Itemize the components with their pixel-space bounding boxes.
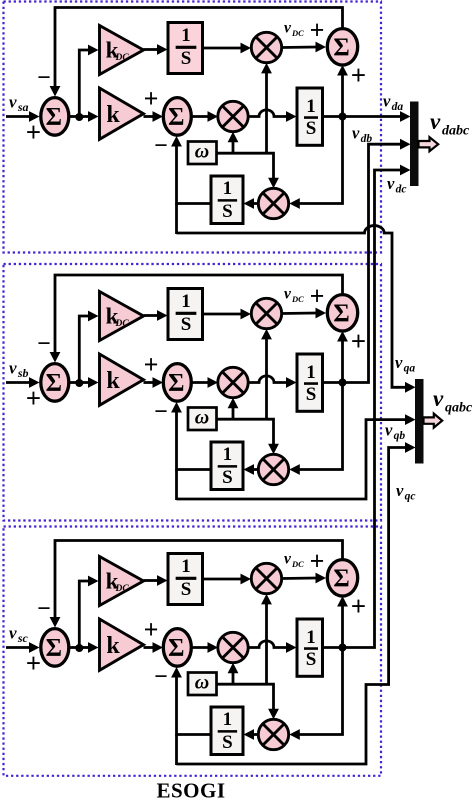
svg-text:S: S (222, 201, 233, 222)
wire M2a to integrator with hop (248, 110, 296, 122)
label v_qb (385, 421, 405, 443)
wire kDCb to integrator (144, 310, 168, 321)
svg-text:−: − (37, 65, 51, 91)
svg-text:Σ: Σ (333, 34, 349, 61)
wire S1a to node (70, 115, 80, 118)
wire node to gain kc (79, 642, 98, 653)
integrator 1/S quadrature path c (211, 707, 243, 755)
summing junction S3a (327, 29, 357, 65)
svg-text:v: v (433, 386, 444, 411)
wire integrator to multiplier M1b (203, 309, 252, 320)
svg-text:+: + (144, 350, 159, 379)
plus sign at S2b (144, 350, 159, 379)
svg-text:v: v (352, 124, 360, 143)
svg-text:k: k (106, 368, 120, 394)
wire M3b to integrator q (244, 464, 259, 475)
plus sign at S1a (26, 117, 41, 147)
wire M2b to integrator with hop (248, 376, 296, 388)
svg-text:S: S (222, 467, 233, 488)
svg-text:+: + (26, 383, 41, 413)
dotted frame phase c (4, 527, 382, 776)
svg-text:db: db (361, 133, 373, 145)
wire omegac to M1 M2 M3 (217, 594, 279, 719)
wire S1b to node (70, 381, 80, 384)
wire kDCc to integrator (144, 575, 168, 586)
wire v_da output (323, 111, 411, 122)
wire omegaa to M1 M2 M3 (217, 63, 279, 188)
plus sign at S1b (26, 383, 41, 413)
plus sign at S3b left (310, 282, 325, 311)
svg-text:v: v (9, 624, 17, 643)
svg-text:k: k (106, 102, 120, 128)
input label v_sb (9, 359, 29, 381)
svg-text:+: + (310, 16, 325, 45)
node v_dc (339, 644, 347, 652)
svg-text:1: 1 (306, 96, 316, 117)
svg-text:1: 1 (181, 25, 191, 46)
summing junction S2a (163, 98, 191, 136)
gain block kDC c (100, 557, 144, 606)
wire kc to S2c (144, 642, 164, 653)
integrator 1/S dc path b (168, 289, 203, 340)
multiplier M3c (258, 719, 288, 749)
label v_dc (387, 174, 406, 196)
multiplier M3b (258, 454, 288, 484)
wire integrator q out to S2c minus (171, 667, 211, 765)
svg-text:1: 1 (223, 709, 233, 730)
label v_DC a (284, 20, 304, 39)
input label v_sa (9, 93, 29, 115)
svg-text:sb: sb (17, 366, 29, 380)
multiplier M2a (218, 101, 248, 131)
wire integrator q out to S2b minus (171, 402, 211, 500)
wire S2b to M2b (191, 377, 218, 388)
label v_dabc (430, 109, 470, 139)
svg-text:k: k (106, 633, 120, 659)
label v_qabc (433, 386, 473, 416)
label v_qa (395, 353, 415, 375)
svg-text:S: S (181, 314, 192, 335)
wire v_d node to M3b (289, 383, 342, 475)
wire v_qb output (177, 414, 416, 499)
wire integrator to multiplier M1a (203, 43, 252, 54)
svg-text:v: v (284, 20, 292, 37)
multiplier M1c (251, 563, 281, 593)
svg-text:1: 1 (223, 444, 233, 465)
svg-text:sa: sa (17, 100, 29, 114)
svg-text:Σ: Σ (46, 370, 62, 397)
svg-text:Σ: Σ (168, 104, 184, 131)
svg-text:qabc: qabc (445, 401, 473, 416)
integrator 1/S direct path b (297, 354, 323, 411)
svg-text:DC: DC (115, 319, 130, 329)
node v_da (339, 113, 347, 121)
svg-text:+: + (144, 615, 159, 644)
wire v_dc output (323, 165, 411, 648)
wire v_d node to M3c (289, 648, 342, 740)
svg-text:Σ: Σ (46, 104, 62, 131)
wire v_db output (323, 139, 411, 383)
wire v_d node to S3b bottom (337, 331, 348, 383)
label v_qc (396, 481, 415, 503)
svg-text:qa: qa (404, 363, 416, 375)
svg-text:−: − (154, 133, 168, 159)
plus sign at S3a bottom (351, 60, 366, 90)
svg-text:S: S (306, 384, 317, 405)
gain block k b (100, 354, 144, 405)
summing junction S3c (327, 560, 357, 596)
integrator 1/S direct path a (297, 88, 323, 145)
wire kb to S2b (144, 377, 164, 388)
wire node to gain kb (79, 377, 98, 388)
integrator 1/S dc path c (168, 554, 203, 605)
minus sign at S2a bottom (154, 133, 168, 159)
dotted frame phase a (4, 2, 382, 253)
svg-text:S: S (222, 732, 233, 753)
integrator 1/S quadrature path a (211, 176, 243, 224)
node after S1c (75, 644, 83, 652)
multiplier M3a (258, 188, 288, 218)
svg-text:ω: ω (195, 407, 209, 429)
wire S2a to M2a (191, 111, 218, 122)
svg-text:v: v (387, 174, 395, 193)
wire omegab to M1 M2 M3 (217, 329, 279, 454)
svg-text:S: S (306, 649, 317, 670)
plus sign at S2c (144, 615, 159, 644)
wire M1a to S3a (282, 42, 326, 53)
omega block b (188, 407, 217, 431)
svg-text:qc: qc (405, 491, 416, 503)
svg-text:DC: DC (291, 28, 304, 38)
svg-text:+: + (351, 591, 366, 621)
gain block kDC b (100, 292, 144, 341)
svg-text:+: + (26, 117, 41, 147)
wire integrator to multiplier M1c (203, 574, 252, 585)
multiplier M1a (251, 32, 281, 62)
wire M1b to S3b (282, 308, 326, 319)
svg-text:Σ: Σ (46, 635, 62, 662)
svg-text:+: + (310, 282, 325, 311)
svg-text:1: 1 (181, 556, 191, 577)
svg-text:S: S (306, 118, 317, 139)
svg-text:v: v (430, 109, 441, 134)
svg-text:−: − (154, 664, 168, 690)
svg-text:v: v (284, 286, 292, 303)
label v_db (352, 124, 372, 146)
dotted frame phase b (4, 264, 382, 521)
wire input v_sa (6, 111, 40, 122)
output block arrow v_dabc (419, 137, 439, 151)
input label v_sc (9, 624, 29, 646)
wire input v_sc (6, 642, 40, 653)
svg-text:1: 1 (223, 178, 233, 199)
svg-text:dc: dc (396, 184, 407, 196)
wire M3a to integrator q (244, 198, 259, 209)
integrator 1/S dc path a (168, 23, 203, 74)
wire feedback S3c output to S1c minus input (50, 541, 343, 628)
svg-text:+: + (310, 547, 325, 576)
summing junction S3b (327, 295, 357, 331)
svg-text:dabc: dabc (442, 124, 470, 139)
summing junction S2c (163, 629, 191, 667)
wire node to gain ka (79, 111, 98, 122)
omega block c (188, 672, 217, 696)
svg-text:v: v (9, 93, 17, 112)
svg-text:+: + (351, 60, 366, 90)
wire M2c to integrator with hop (248, 641, 296, 653)
minus sign at S1a (37, 65, 51, 91)
summing bar v_qabc (415, 379, 424, 464)
output block arrow v_qabc (424, 414, 443, 428)
svg-text:v: v (396, 481, 404, 500)
node after S1b (75, 379, 83, 387)
gain block kDC a (100, 26, 144, 75)
svg-text:ω: ω (195, 672, 209, 694)
wire feedback S3a output to S1a minus input (50, 8, 343, 97)
wire S2c to M2c (191, 642, 218, 653)
plus sign at S3c left (310, 547, 325, 576)
svg-text:ESOGI: ESOGI (156, 779, 225, 803)
svg-text:DC: DC (291, 559, 304, 569)
svg-text:1: 1 (181, 291, 191, 312)
svg-text:v: v (385, 421, 393, 440)
wire kDCa to integrator (144, 44, 168, 55)
wire v_qa output (177, 226, 416, 393)
wire S1c to node (70, 646, 80, 649)
svg-text:1: 1 (306, 627, 316, 648)
svg-text:Σ: Σ (333, 565, 349, 592)
wire node to gain kDCb (79, 311, 98, 383)
svg-text:DC: DC (291, 294, 304, 304)
wire input v_sb (6, 377, 40, 388)
wire v_d node to S3c bottom (337, 596, 348, 648)
svg-text:v: v (383, 92, 391, 111)
wire node to gain kDCc (79, 576, 98, 648)
wire v_d node to S3a bottom (337, 65, 348, 117)
svg-text:Σ: Σ (168, 370, 184, 397)
wire v_d node to M3a (289, 117, 342, 209)
plus sign at S2a (144, 84, 159, 113)
title ESOGI (156, 779, 225, 803)
svg-text:−: − (154, 399, 168, 425)
wire feedback S3b output to S1b minus input (50, 275, 343, 363)
gain block k c (100, 619, 144, 670)
plus sign at S3a left (310, 16, 325, 45)
summing junction S2b (163, 364, 191, 402)
svg-text:v: v (9, 359, 17, 378)
label v_da (383, 92, 403, 114)
gain block k a (100, 88, 144, 139)
multiplier M2c (218, 632, 248, 662)
label v_DC c (284, 551, 304, 570)
wire M3c to integrator q (244, 729, 259, 740)
minus sign at S1c (37, 596, 51, 622)
svg-text:v: v (284, 551, 292, 568)
label v_DC b (284, 286, 304, 305)
integrator 1/S quadrature path b (211, 442, 243, 490)
svg-text:da: da (392, 101, 404, 113)
minus sign at S1b (37, 331, 51, 357)
svg-text:+: + (351, 326, 366, 356)
plus sign at S3b bottom (351, 326, 366, 356)
plus sign at S3c bottom (351, 591, 366, 621)
wire M1c to S3c (282, 573, 326, 584)
svg-text:+: + (26, 648, 41, 678)
svg-text:1: 1 (306, 362, 316, 383)
summing bar v_dabc (410, 102, 419, 187)
minus sign at S2b bottom (154, 399, 168, 425)
multiplier M1b (251, 298, 281, 328)
summing junction S1c (41, 629, 69, 667)
omega block a (188, 141, 217, 165)
svg-text:DC: DC (115, 53, 130, 63)
multiplier M2b (218, 367, 248, 397)
summing junction S1a (41, 98, 69, 136)
node v_db (339, 379, 347, 387)
summing junction S1b (41, 364, 69, 402)
svg-text:S: S (181, 48, 192, 69)
integrator 1/S direct path c (297, 619, 323, 676)
minus sign at S2c bottom (154, 664, 168, 690)
svg-text:−: − (37, 331, 51, 357)
node after S1a (75, 113, 83, 121)
svg-text:ω: ω (195, 141, 209, 163)
svg-text:v: v (395, 353, 403, 372)
wire integrator q out to S2a minus (171, 136, 211, 234)
svg-text:DC: DC (115, 584, 130, 594)
plus sign at S1c (26, 648, 41, 678)
svg-text:+: + (144, 84, 159, 113)
wire ka to S2a (144, 111, 164, 122)
svg-text:−: − (37, 596, 51, 622)
wire v_qc output (177, 442, 416, 764)
svg-text:Σ: Σ (168, 635, 184, 662)
svg-text:qb: qb (394, 430, 406, 442)
wire node to gain kDCa (79, 45, 98, 117)
svg-text:sc: sc (17, 631, 29, 645)
svg-text:Σ: Σ (333, 300, 349, 327)
svg-text:S: S (181, 579, 192, 600)
